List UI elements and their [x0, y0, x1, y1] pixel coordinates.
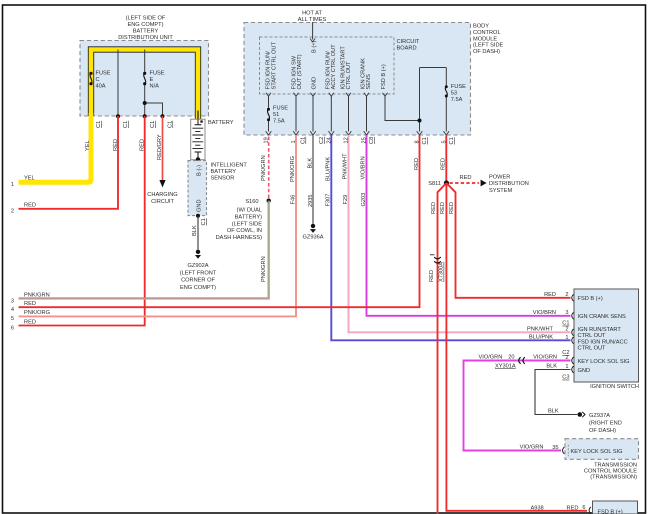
svg-text:DISTRIBUTION UNIT: DISTRIBUTION UNIT — [118, 35, 173, 41]
wire RED (pin 8 to left edge, circuit 4) — [19, 135, 420, 307]
wire RED/GRY to charging circuit — [162, 116, 164, 181]
svg-text:C1: C1 — [201, 218, 207, 225]
svg-text:C1: C1 — [123, 121, 129, 128]
svg-text:RED: RED — [429, 270, 435, 282]
svg-text:6: 6 — [11, 325, 14, 331]
svg-text:F29: F29 — [343, 195, 349, 205]
svg-text:RED: RED — [567, 505, 579, 511]
svg-text:POWER: POWER — [489, 174, 510, 180]
fuse E N/A — [143, 71, 165, 90]
svg-text:RED: RED — [431, 202, 437, 214]
svg-text:RED/GRY: RED/GRY — [157, 134, 163, 160]
svg-text:F307: F307 — [326, 194, 332, 207]
node S811 splice — [444, 180, 449, 185]
svg-text:B (-): B (-) — [197, 165, 203, 176]
wire PNK/GRN dashed (pin 19 to S160) — [268, 137, 270, 200]
svg-text:VIO/BRN: VIO/BRN — [361, 156, 367, 179]
svg-text:C2: C2 — [562, 350, 569, 356]
svg-text:VIO/BRN: VIO/BRN — [533, 310, 556, 316]
svg-text:BLK: BLK — [308, 158, 314, 169]
box FSD B (+) (cut off at page bottom) — [593, 501, 638, 514]
svg-text:FSD B (+): FSD B (+) — [381, 64, 387, 89]
svg-text:6: 6 — [582, 505, 585, 511]
svg-text:YEL: YEL — [24, 176, 35, 182]
junction BDU branch — [143, 101, 147, 105]
svg-text:(W/ DUAL: (W/ DUAL — [237, 208, 262, 214]
svg-text:RED: RED — [24, 301, 36, 307]
svg-text:S811: S811 — [428, 181, 441, 187]
svg-text:OUT (START): OUT (START) — [297, 54, 303, 89]
svg-text:PNK/WHT: PNK/WHT — [343, 153, 349, 180]
internal stub wires from circuit board to BCM edge — [269, 68, 447, 132]
wire RED circuit 2 from BDU pin to left edge — [19, 116, 119, 209]
wire RED S811 right branch (to ignition switch pin 2) — [446, 183, 570, 298]
svg-text:2935: 2935 — [308, 194, 314, 207]
junction battery to sensor — [196, 157, 200, 161]
svg-text:XY301A: XY301A — [495, 363, 516, 369]
svg-text:C1: C1 — [449, 137, 455, 144]
fuse C 40A — [89, 71, 110, 90]
svg-text:BATTERY: BATTERY — [208, 120, 234, 126]
fuse 51 7.5A — [267, 106, 288, 125]
svg-text:C1: C1 — [422, 137, 428, 144]
svg-text:FSD B (+): FSD B (+) — [598, 510, 623, 514]
wire PNK/GRN solid (S160 to left edge, circuit 3) — [19, 201, 269, 298]
wire BLK (ignition GND pin 1 to GZ937A) — [535, 370, 577, 415]
svg-text:51: 51 — [273, 112, 279, 118]
svg-text:(LEFT SIDE OF: (LEFT SIDE OF — [126, 16, 166, 22]
pin label FSD IGN SW OUT (START) — [291, 54, 303, 89]
svg-text:(RIGHT END: (RIGHT END — [589, 420, 622, 426]
svg-text:RED: RED — [449, 202, 455, 214]
svg-text:SENS: SENS — [366, 74, 372, 90]
svg-text:PNK/ORG: PNK/ORG — [290, 156, 296, 182]
svg-text:GND: GND — [197, 199, 203, 212]
ground GZ936A — [311, 224, 315, 228]
svg-text:BATTERY): BATTERY) — [235, 214, 262, 220]
wire YEL thick main feed inside BDU (black outline) — [91, 50, 198, 121]
svg-text:PNK/GRN: PNK/GRN — [261, 155, 267, 181]
pin dots at BDU bottom — [116, 114, 120, 118]
inner box pin arrows — [266, 93, 388, 97]
pin label IGN RUN/START CTRL OUT — [341, 46, 353, 90]
svg-text:C8: C8 — [369, 137, 375, 144]
svg-text:KEY LOCK SOL SIG: KEY LOCK SOL SIG — [578, 359, 630, 365]
svg-text:ALL TIMES: ALL TIMES — [298, 17, 327, 23]
box U-BCM body control module — [244, 23, 504, 136]
ignition switch pin brackets — [572, 294, 574, 373]
svg-text:PNK/WHT: PNK/WHT — [527, 327, 554, 333]
intelligent battery sensor module — [188, 161, 247, 216]
svg-text:B (+): B (+) — [311, 40, 317, 53]
wire VIO/GRN (ignition pin 2 C3 via XY301A, down to TCM) — [464, 361, 571, 451]
svg-text:FSD IGN RUN/ACC: FSD IGN RUN/ACC — [578, 339, 628, 345]
box TCM — [565, 439, 639, 481]
svg-text:SYSTEM: SYSTEM — [489, 188, 512, 194]
svg-text:ENG COMPT): ENG COMPT) — [127, 22, 163, 28]
svg-text:BATTERY: BATTERY — [211, 169, 237, 175]
svg-text:5: 5 — [11, 316, 14, 322]
wire PNK/WHT F29 (pin 12 to ignition switch pin 2) — [349, 135, 571, 332]
wire BLK sensor to ground — [197, 216, 199, 250]
svg-text:IGN CRANK SENS: IGN CRANK SENS — [578, 314, 627, 320]
pin label FSD IGN RUN/ACCY CTRL OUT — [325, 44, 337, 90]
wire PNK/ORG (pin 1 to left edge, circuit 5) — [19, 135, 297, 316]
svg-text:C1: C1 — [96, 121, 102, 128]
svg-text:SENSOR: SENSOR — [211, 176, 235, 182]
svg-text:1: 1 — [11, 182, 14, 188]
svg-text:CONTROL: CONTROL — [473, 30, 501, 36]
node S160 splice — [267, 199, 271, 203]
svg-text:40A: 40A — [96, 84, 106, 90]
svg-text:VIO/GRN: VIO/GRN — [479, 355, 503, 361]
svg-text:RED: RED — [460, 175, 472, 181]
wire RED S811 fan-out left branch (through X7300A to bottom) — [438, 183, 447, 514]
svg-text:CIRCUIT: CIRCUIT — [151, 199, 174, 205]
junction FSD B(+) branch — [418, 119, 422, 123]
svg-text:KEY LOCK SOL SIG: KEY LOCK SOL SIG — [571, 449, 623, 455]
svg-text:ACCY CTRL OUT: ACCY CTRL OUT — [331, 44, 337, 90]
svg-text:2: 2 — [565, 327, 568, 333]
svg-text:E: E — [150, 77, 154, 83]
svg-text:GZ937A: GZ937A — [589, 413, 610, 419]
svg-text:DASH HARNESS): DASH HARNESS) — [216, 235, 263, 241]
svg-text:4: 4 — [11, 307, 14, 313]
wire RED S811 middle branch (to bottom right box) — [446, 183, 587, 511]
box ignition switch — [574, 289, 639, 390]
svg-text:MODULE: MODULE — [473, 36, 497, 42]
svg-text:S160: S160 — [245, 199, 258, 205]
svg-text:CTRL OUT: CTRL OUT — [578, 346, 607, 352]
svg-text:CTRL OUT: CTRL OUT — [346, 61, 352, 90]
svg-text:X7300A: X7300A — [439, 262, 445, 282]
svg-text:CHARGING: CHARGING — [147, 192, 177, 198]
inline connector XY301A — [479, 355, 525, 370]
svg-text:RED: RED — [113, 139, 119, 151]
TCM pin bracket and labels — [563, 447, 565, 454]
svg-text:BODY: BODY — [473, 24, 489, 30]
wire branch in BDU at x=144.7 (through fuse E) — [144, 50, 146, 117]
svg-text:GZ902A: GZ902A — [187, 263, 208, 269]
svg-text:N/A: N/A — [150, 84, 160, 90]
svg-text:C: C — [96, 77, 100, 83]
svg-text:FSD B (+): FSD B (+) — [578, 296, 603, 302]
wire YEL from BDU down and left to edge (circuit 1) — [19, 113, 92, 182]
svg-text:C3: C3 — [562, 375, 569, 381]
svg-text:(TRANSMISSION): (TRANSMISSION) — [590, 475, 637, 481]
svg-text:20: 20 — [508, 355, 514, 361]
svg-text:RED: RED — [24, 202, 36, 208]
inline connector X7300A on red wire — [429, 255, 444, 282]
svg-text:RED: RED — [544, 292, 556, 298]
svg-text:1: 1 — [565, 335, 568, 341]
svg-text:HOT AT: HOT AT — [302, 10, 322, 16]
fuse 53 7.5A — [445, 84, 466, 103]
svg-text:FUSE: FUSE — [273, 106, 288, 112]
svg-text:IGNITION SWITCH: IGNITION SWITCH — [590, 384, 639, 390]
svg-text:C2: C2 — [319, 137, 325, 144]
svg-text:ENG COMPT): ENG COMPT) — [180, 285, 216, 291]
svg-text:CORNER OF: CORNER OF — [181, 278, 215, 284]
wire branch in BDU at x=118 — [117, 50, 119, 117]
svg-text:FUSE: FUSE — [96, 71, 111, 77]
svg-text:7.5A: 7.5A — [451, 97, 463, 103]
svg-text:(LEFT SIDE: (LEFT SIDE — [232, 221, 263, 227]
svg-text:GND: GND — [311, 77, 317, 90]
svg-text:53: 53 — [451, 91, 457, 97]
svg-text:F46: F46 — [291, 195, 297, 205]
svg-text:A938: A938 — [531, 505, 544, 511]
svg-text:GND: GND — [578, 368, 591, 374]
svg-text:CIRCUIT: CIRCUIT — [397, 39, 420, 45]
wire RED circuit 6 from BDU fuse E to left edge — [19, 116, 145, 326]
svg-text:RED: RED — [440, 202, 446, 214]
svg-text:(LEFT FRONT: (LEFT FRONT — [180, 270, 217, 276]
svg-text:DISTRIBUTION: DISTRIBUTION — [489, 181, 529, 187]
svg-text:START CTRL OUT: START CTRL OUT — [271, 42, 277, 90]
svg-text:2: 2 — [565, 292, 568, 298]
svg-text:RED: RED — [414, 158, 420, 170]
wire RED (pin 5 to S811) — [445, 135, 447, 183]
svg-text:CTRL OUT: CTRL OUT — [578, 333, 607, 339]
svg-text:PNK/GRN: PNK/GRN — [261, 256, 267, 282]
pin bracket A938 — [589, 507, 591, 514]
svg-text:OF DASH): OF DASH) — [589, 428, 616, 434]
svg-text:(LEFT SIDE: (LEFT SIDE — [473, 43, 504, 49]
battery G1 — [191, 119, 234, 160]
svg-text:BLK: BLK — [548, 408, 559, 414]
pin label FSD IGN RUN/START CTRL OUT — [266, 42, 278, 90]
svg-text:OF DASH): OF DASH) — [473, 49, 500, 55]
svg-text:3: 3 — [565, 310, 568, 316]
svg-text:OF COWL, IN: OF COWL, IN — [227, 228, 262, 234]
ground GZ937A — [578, 412, 583, 417]
svg-text:PNK/ORG: PNK/ORG — [24, 310, 50, 316]
svg-text:C1: C1 — [168, 121, 174, 128]
svg-text:PNK/GRN: PNK/GRN — [24, 292, 50, 298]
svg-text:BLU/PNK: BLU/PNK — [529, 335, 553, 341]
svg-text:CONTROL MODULE: CONTROL MODULE — [584, 468, 637, 474]
pin dot sensor bottom + connector C1 — [196, 214, 200, 218]
svg-text:BLK: BLK — [546, 364, 557, 370]
box circuit board (inner) — [260, 37, 420, 94]
wire BLU/PNK F307 (pin 24 to ignition switch pin 1) — [331, 135, 570, 340]
svg-text:BOARD: BOARD — [397, 46, 417, 52]
svg-text:RED: RED — [24, 319, 36, 325]
svg-text:YEL: YEL — [85, 140, 91, 151]
svg-text:GZ936A: GZ936A — [302, 235, 323, 241]
svg-text:C1: C1 — [301, 137, 307, 144]
pin label IGN CRANK SENS — [360, 58, 372, 90]
svg-text:35: 35 — [552, 445, 558, 451]
svg-text:C1: C1 — [562, 321, 569, 327]
svg-text:G203: G203 — [361, 193, 367, 207]
box U-BDU battery distribution unit — [80, 16, 209, 117]
svg-text:VIO/GRN: VIO/GRN — [520, 445, 544, 451]
svg-text:FUSE: FUSE — [451, 84, 466, 90]
svg-text:FUSE: FUSE — [150, 71, 165, 77]
svg-text:2: 2 — [11, 208, 14, 214]
wire BLK 2935 to ground GZ936A — [312, 135, 314, 224]
svg-text:3: 3 — [11, 298, 14, 304]
BCM bottom pin arrows — [266, 131, 449, 135]
svg-text:RED: RED — [441, 158, 447, 170]
node HOT AT ALL TIMES feed B(+) — [298, 10, 327, 53]
wire RED dashed to power distribution system — [450, 182, 480, 184]
svg-text:RED: RED — [140, 139, 146, 151]
arrow to charging circuit — [159, 180, 165, 188]
svg-text:BLU/PNK: BLU/PNK — [325, 157, 331, 181]
svg-text:C1: C1 — [150, 121, 156, 128]
ground GZ902A — [196, 250, 200, 254]
wire VIO/BRN G203 (pin 25 to ignition switch pin 3) — [367, 135, 571, 316]
svg-text:TRANSMISSION: TRANSMISSION — [594, 462, 637, 468]
svg-text:7.5A: 7.5A — [273, 119, 285, 125]
svg-text:BLK: BLK — [192, 225, 198, 236]
svg-text:BATTERY: BATTERY — [133, 29, 159, 35]
wire branch in BDU to x=162.5 — [145, 103, 163, 116]
svg-text:INTELLIGENT: INTELLIGENT — [211, 163, 248, 169]
